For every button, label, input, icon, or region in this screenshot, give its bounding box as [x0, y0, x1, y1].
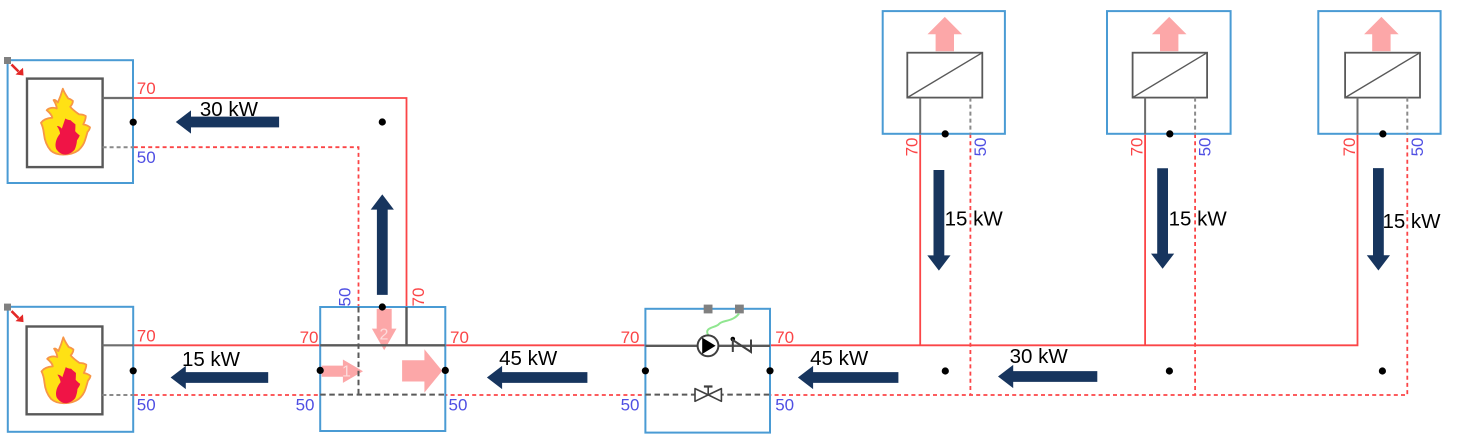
- svg-text:30 kW: 30 kW: [1010, 345, 1069, 368]
- svg-text:70: 70: [137, 79, 156, 98]
- pump return pipe dashed: [645, 394, 770, 396]
- boiler B2 flame icon: [42, 337, 91, 403]
- mixer return pipe dashed: [320, 394, 445, 396]
- boiler B1 enclosure box: [8, 60, 133, 183]
- label 30 kW top: [200, 98, 259, 121]
- boiler B1 selection handle: [4, 57, 11, 64]
- svg-text:70: 70: [621, 328, 640, 347]
- consumer H1 heat exchanger body: [907, 53, 982, 98]
- svg-text:50: 50: [1196, 137, 1215, 156]
- boiler B1 return stub pipe dashed: [103, 146, 134, 148]
- consumer H3 pink heat arrow up: [1364, 17, 1399, 51]
- arrow 15 kW down consumer H2: [1151, 168, 1174, 269]
- svg-text:70: 70: [1340, 137, 1359, 156]
- svg-text:50: 50: [137, 148, 156, 167]
- consumer H3 supply stub pipe: [1357, 98, 1359, 134]
- wire supply riser consumer H1: [919, 134, 921, 345]
- label 70 boiler B2: [137, 327, 156, 346]
- mixer supply pipe: [320, 344, 445, 346]
- consumer H1 supply stub pipe: [919, 98, 921, 134]
- svg-text:70: 70: [300, 328, 319, 347]
- node pump box right port: [766, 367, 773, 374]
- svg-text:50: 50: [621, 396, 640, 415]
- label 50 rotated consumer H2: [1196, 137, 1215, 156]
- wire return main top (50) dashed from boiler B1 to riser: [134, 147, 359, 307]
- svg-text:50: 50: [971, 137, 990, 156]
- consumer H2 pink heat arrow up: [1152, 17, 1187, 51]
- label 15 kW bottom left: [182, 348, 241, 371]
- wire return riser dashed consumer H2: [1194, 134, 1196, 395]
- label 30 kW main: [1010, 345, 1069, 368]
- consumer H1 return stub pipe dashed: [969, 98, 971, 134]
- node main junction consumer H3: [1379, 367, 1386, 374]
- mixer pink flow arrow 2 down: [372, 309, 397, 350]
- arrow up riser 30 kW flow: [371, 194, 394, 295]
- svg-text:30 kW: 30 kW: [200, 98, 259, 121]
- label 50 rotated consumer H3: [1408, 137, 1427, 156]
- consumer H3 heat exchanger body: [1345, 53, 1420, 98]
- boiler B2 corner red arrow: [12, 311, 24, 322]
- node top riser junction: [379, 118, 386, 125]
- mixer pink flow arrow big right: [402, 349, 442, 392]
- label 45 kW right: [810, 347, 869, 370]
- mixer riser supply pipe: [405, 307, 407, 345]
- arrow 45 kW toward pump station: [798, 366, 899, 389]
- svg-text:15 kW: 15 kW: [1382, 210, 1441, 233]
- label 50 boiler B1: [137, 148, 156, 167]
- label 50 rotated consumer H1: [971, 137, 990, 156]
- boiler B2 selection handle: [4, 304, 11, 311]
- consumer H2 enclosure box: [1107, 11, 1231, 134]
- mixer/separator M1 enclosure box: [320, 307, 445, 431]
- balancing valve V1: [695, 387, 721, 402]
- consumer H2 return stub pipe dashed: [1194, 98, 1196, 134]
- arrow 30 kW toward boiler B1: [176, 110, 279, 133]
- boiler B2 enclosure box: [8, 307, 133, 432]
- label 70 rotated above mixer: [409, 288, 428, 307]
- consumer H1 enclosure box: [883, 11, 1005, 134]
- label 70 boiler B1: [137, 79, 156, 98]
- wire supply riser consumer H2: [1144, 134, 1146, 345]
- wire supply main bottom (70) from boiler B2 to consumer H3 riser: [134, 134, 1358, 345]
- node consumer H3 port: [1379, 130, 1386, 137]
- boiler B1 supply stub pipe: [103, 97, 134, 99]
- svg-text:15 kW: 15 kW: [182, 348, 241, 371]
- svg-text:15 kW: 15 kW: [945, 208, 1004, 231]
- label 70 pump box right: [775, 328, 794, 347]
- consumer H1 pink heat arrow up: [928, 17, 963, 51]
- svg-text:15 kW: 15 kW: [1169, 207, 1228, 230]
- svg-text:2: 2: [379, 327, 388, 344]
- pump station enclosure box: [645, 309, 770, 433]
- pump station handle square 1: [704, 305, 713, 314]
- label 50 pump box right: [775, 396, 794, 415]
- label 70 rotated consumer H3: [1340, 137, 1359, 156]
- svg-text:45 kW: 45 kW: [499, 347, 558, 370]
- label 45 kW left: [499, 347, 558, 370]
- label 15 kW consumer H2: [1169, 207, 1228, 230]
- node main junction consumer H1: [942, 367, 949, 374]
- node mixer top port: [379, 303, 386, 310]
- svg-text:70: 70: [1128, 137, 1147, 156]
- boiler B1 body: [27, 79, 103, 168]
- label 50 mixer left: [296, 396, 315, 415]
- consumer H3 return stub pipe dashed: [1406, 98, 1408, 134]
- boiler B2 supply stub pipe: [102, 344, 133, 346]
- label 50 mixer right: [449, 396, 468, 415]
- boiler B1 corner red arrow: [12, 65, 24, 76]
- arrow 15 kW down consumer H3: [1367, 168, 1390, 270]
- svg-text:50: 50: [775, 396, 794, 415]
- boiler B2 body: [27, 327, 103, 415]
- consumer H2 heat exchanger body: [1133, 53, 1208, 98]
- svg-text:1: 1: [342, 364, 351, 381]
- svg-text:50: 50: [296, 396, 315, 415]
- svg-text:45 kW: 45 kW: [810, 347, 869, 370]
- svg-text:50: 50: [1408, 137, 1427, 156]
- label 50 pump box left: [621, 396, 640, 415]
- node consumer H1 port: [942, 130, 949, 137]
- node boiler B1 outlet: [130, 119, 137, 126]
- node mixer right port: [442, 367, 449, 374]
- arrow 30 kW on main: [998, 365, 1097, 388]
- label 70 rotated consumer H1: [903, 137, 922, 156]
- label 15 kW consumer H1: [945, 208, 1004, 231]
- arrow 45 kW toward mixer: [487, 366, 588, 389]
- label 15 kW consumer H3: [1382, 210, 1441, 233]
- svg-text:50: 50: [449, 396, 468, 415]
- wire return riser dashed consumer H1: [969, 134, 971, 395]
- pump P1: [698, 335, 719, 356]
- svg-text:50: 50: [336, 288, 355, 307]
- svg-text:70: 70: [775, 328, 794, 347]
- control wire green: [707, 314, 739, 336]
- node boiler B2 outlet: [130, 367, 137, 374]
- pump supply pipe: [645, 345, 770, 347]
- arrow 15 kW down consumer H1: [927, 170, 950, 271]
- wire supply main top (70) from boiler B1 to riser: [134, 98, 407, 307]
- node pump box left port: [642, 367, 649, 374]
- label 70 mixer left: [300, 328, 319, 347]
- pump station handle square 2: [735, 305, 744, 314]
- consumer H3 enclosure box: [1318, 11, 1440, 134]
- svg-text:70: 70: [409, 288, 428, 307]
- label 70 rotated consumer H2: [1128, 137, 1147, 156]
- svg-text:70: 70: [903, 137, 922, 156]
- svg-text:50: 50: [137, 396, 156, 415]
- label 50 boiler B2: [137, 396, 156, 415]
- consumer H2 supply stub pipe: [1144, 98, 1146, 134]
- mixer pink flow arrow 1 right: [322, 360, 363, 383]
- label 70 mixer right: [450, 328, 469, 347]
- arrow 15 kW toward boiler B2: [171, 366, 269, 389]
- wire return main bottom (50) dashed from boiler B2 to consumer H3 riser: [134, 134, 1408, 395]
- node mixer left port: [317, 367, 324, 374]
- boiler B1 flame icon: [41, 89, 90, 155]
- svg-text:70: 70: [137, 327, 156, 346]
- label 50 rotated above mixer: [336, 288, 355, 307]
- svg-text:70: 70: [450, 328, 469, 347]
- node main junction consumer H2: [1166, 367, 1173, 374]
- mixer riser return pipe dashed: [358, 307, 360, 395]
- node consumer H2 port: [1166, 130, 1173, 137]
- label 70 pump box left: [621, 328, 640, 347]
- boiler B2 return stub pipe dashed: [102, 394, 133, 396]
- check valve: [731, 337, 752, 352]
